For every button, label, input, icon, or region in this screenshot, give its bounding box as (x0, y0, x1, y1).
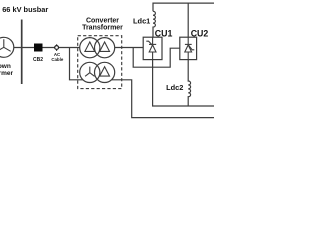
svg-text:Transformer: Transformer (82, 24, 123, 31)
svg-text:Cable: Cable (51, 57, 64, 62)
svg-text:CU1: CU1 (155, 28, 173, 38)
svg-text:CU2: CU2 (191, 28, 209, 38)
svg-text:66 kV busbar: 66 kV busbar (2, 5, 48, 14)
svg-text:down: down (0, 63, 11, 70)
svg-text:Converter: Converter (86, 17, 119, 24)
svg-text:Ldc2: Ldc2 (166, 83, 183, 92)
svg-text:CB2: CB2 (33, 57, 43, 63)
svg-text:former: former (0, 70, 13, 77)
svg-text:Ldc1: Ldc1 (133, 17, 150, 26)
